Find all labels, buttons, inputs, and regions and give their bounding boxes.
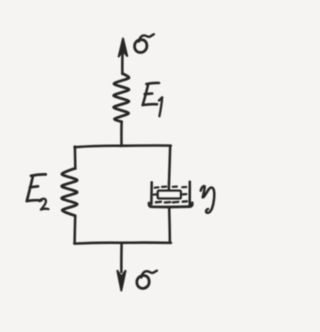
fluid dash 5 xyxy=(154,193,156,195)
label E1: bottom bar xyxy=(143,103,157,106)
bottom arrowhead xyxy=(117,271,125,291)
dashpot cup bottom xyxy=(149,203,192,207)
label sigma bottom: tilde stroke xyxy=(141,271,157,278)
label eta xyxy=(201,186,215,213)
fluid dash 7 xyxy=(156,201,161,204)
label E2: middle bar xyxy=(30,186,38,187)
fluid dash 3 xyxy=(173,186,177,188)
dashpot piston xyxy=(158,191,181,199)
label E1: top bar xyxy=(146,83,159,84)
top arrowhead xyxy=(119,39,128,57)
fluid dash 8 xyxy=(165,201,170,204)
fluid dash 4 xyxy=(182,186,186,188)
frame top edge xyxy=(75,146,171,148)
dashpot cup left wall xyxy=(150,182,153,204)
frame bottom edge xyxy=(74,243,171,244)
label sigma bottom: bowl xyxy=(137,275,149,288)
dashpot rod lower xyxy=(168,208,171,243)
fluid dash 10 xyxy=(183,200,187,203)
label E1: stem xyxy=(143,84,149,105)
wire E1 to frame top xyxy=(120,122,123,147)
label E2: subscript 2 xyxy=(40,199,49,210)
label sigma top: bowl xyxy=(135,40,147,53)
left branch upper wire xyxy=(74,147,77,169)
bottom stress arrow shaft xyxy=(120,244,123,272)
fluid dash 9 xyxy=(173,201,179,204)
label E2: bottom bar xyxy=(27,199,42,203)
label E2: stem xyxy=(27,176,33,201)
dashpot rod upper (to piston) xyxy=(168,183,171,191)
label sigma top: tilde stroke xyxy=(139,34,154,41)
fluid dash 2 xyxy=(162,186,166,188)
left branch lower wire xyxy=(73,216,76,243)
label E2: top bar xyxy=(31,174,46,175)
fluid dash 1 xyxy=(155,186,159,189)
spring E1 xyxy=(114,74,129,122)
spring E2 xyxy=(62,168,78,216)
top stress arrow shaft xyxy=(121,44,124,74)
label E1: subscript 1 xyxy=(159,97,162,116)
fluid dash 6 xyxy=(183,193,187,195)
right branch upper wire xyxy=(169,146,170,183)
dashpot cup right wall xyxy=(188,182,191,206)
label E1: middle bar xyxy=(145,92,153,95)
